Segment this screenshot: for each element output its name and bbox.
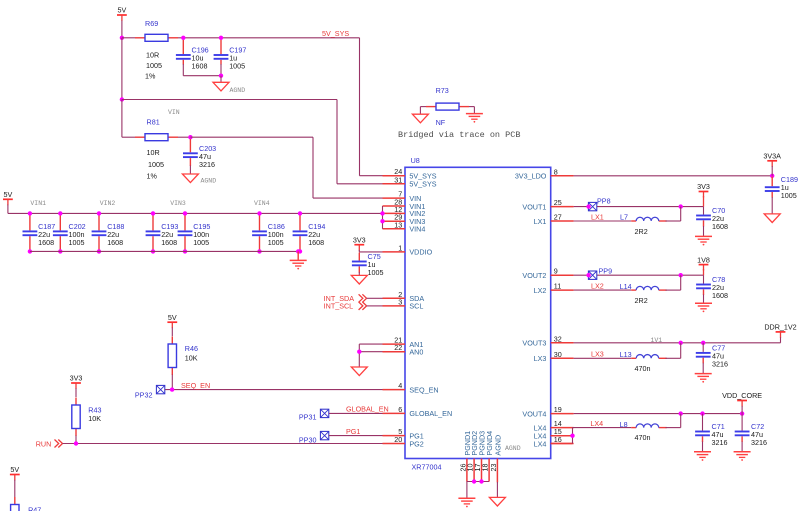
wire (359, 343, 382, 345)
junction (586, 204, 590, 208)
svg-text:25: 25 (554, 198, 562, 207)
wire (680, 207, 682, 221)
svg-text:1005: 1005 (146, 61, 162, 70)
ground PGND (C77) (695, 374, 712, 383)
svg-text:VOUT2: VOUT2 (522, 271, 546, 280)
svg-text:10K: 10K (185, 354, 198, 363)
junction (97, 211, 101, 215)
junction (97, 249, 101, 253)
svg-text:1%: 1% (145, 72, 156, 81)
wire (358, 250, 360, 252)
resistor R43 (72, 398, 102, 437)
svg-text:NF: NF (436, 118, 446, 127)
svg-text:VIN4: VIN4 (254, 200, 270, 207)
svg-text:5V_SYS: 5V_SYS (409, 180, 436, 189)
IC U8 XR77004 body (405, 156, 551, 472)
wire (574, 357, 632, 359)
svg-text:2R2: 2R2 (635, 227, 648, 236)
wire (8, 212, 383, 214)
junction (679, 411, 683, 415)
svg-text:11: 11 (554, 282, 561, 291)
wire (358, 272, 360, 275)
test point PP9 (588, 266, 612, 279)
wire (122, 37, 135, 39)
capacitor C189 (765, 175, 798, 200)
junction (479, 479, 483, 483)
junction (679, 273, 683, 277)
wire (574, 289, 632, 291)
svg-text:LX3: LX3 (534, 354, 547, 363)
svg-text:3V3: 3V3 (353, 235, 366, 244)
svg-text:R46: R46 (185, 344, 198, 353)
power symbol 3V3A (763, 152, 781, 167)
junction (183, 211, 187, 215)
wire (359, 351, 382, 353)
wire (121, 100, 123, 138)
wire (189, 166, 191, 175)
wire (121, 21, 123, 38)
wire (312, 137, 314, 198)
IC U8 bottom pin numbers (458, 464, 498, 472)
svg-text:GLOBAL_EN: GLOBAL_EN (346, 405, 389, 414)
capacitor C194 (293, 213, 326, 251)
svg-text:5V: 5V (118, 6, 127, 15)
svg-text:LX4: LX4 (590, 419, 603, 428)
power symbol 5V (10, 465, 20, 480)
IC U8 right pin names (515, 172, 547, 449)
junction (183, 249, 187, 253)
wire (771, 197, 773, 214)
svg-text:1: 1 (398, 243, 402, 252)
wire (329, 435, 383, 437)
svg-text:AGND: AGND (505, 445, 521, 452)
wire (666, 289, 681, 291)
svg-text:PG2: PG2 (409, 439, 423, 448)
svg-text:U8: U8 (411, 156, 420, 165)
wire (121, 38, 123, 100)
junction (151, 249, 155, 253)
junction (28, 249, 32, 253)
wire (680, 275, 682, 290)
wire (572, 428, 574, 444)
wire (574, 206, 704, 208)
inductor L14 (620, 282, 667, 305)
junction (586, 273, 590, 277)
wire (183, 75, 221, 77)
svg-text:13: 13 (394, 220, 402, 229)
svg-text:1608: 1608 (192, 62, 208, 71)
svg-text:SEQ_EN: SEQ_EN (181, 381, 210, 390)
wire (573, 427, 632, 429)
wire (220, 76, 222, 83)
wire (7, 205, 9, 214)
svg-text:AN0: AN0 (409, 348, 423, 357)
wire (75, 388, 77, 397)
ground AGND (AN0/AN1) (351, 367, 367, 376)
wire (382, 206, 384, 229)
IC U8 bottom pin names (463, 431, 503, 456)
inductor L8 (620, 420, 667, 442)
svg-text:1005: 1005 (781, 191, 797, 200)
svg-text:Bridged via trace on PCB: Bridged via trace on PCB (398, 130, 520, 140)
svg-text:1005: 1005 (229, 62, 245, 71)
junction (472, 479, 476, 483)
svg-text:1608: 1608 (107, 238, 123, 247)
ground PGND (C78) (695, 303, 712, 312)
wire (703, 269, 705, 275)
wire (771, 166, 773, 176)
wire (680, 343, 682, 359)
svg-text:3216: 3216 (751, 438, 767, 447)
wire (574, 175, 773, 177)
ground PGND (C72) (734, 452, 751, 461)
junction (120, 36, 124, 40)
svg-text:VDDIO: VDDIO (409, 248, 432, 257)
wire (63, 443, 383, 445)
svg-text:1005: 1005 (268, 238, 284, 247)
svg-text:L7: L7 (620, 213, 628, 222)
wire (741, 406, 743, 414)
ground AGND (C75) (351, 275, 367, 284)
junction (170, 387, 174, 391)
wire (420, 106, 426, 108)
wire (178, 37, 360, 39)
svg-text:1005: 1005 (368, 268, 384, 277)
svg-text:2R2: 2R2 (635, 296, 648, 305)
svg-text:RUN: RUN (36, 439, 52, 448)
wire (469, 106, 474, 108)
svg-text:VIN3: VIN3 (170, 200, 186, 207)
power symbol 3V3 (70, 374, 83, 389)
IC U8 left pin stubs (383, 176, 406, 444)
svg-text:INT_SCL: INT_SCL (324, 301, 354, 310)
IC U8 right pin numbers (554, 167, 562, 444)
wire (703, 295, 705, 304)
power symbol DDR_1V2 (764, 323, 796, 338)
svg-text:GLOBAL_EN: GLOBAL_EN (409, 409, 452, 418)
wire (336, 100, 338, 184)
wire (780, 337, 782, 343)
wire (313, 197, 383, 199)
wire (473, 107, 475, 114)
svg-text:3V3_LDO: 3V3_LDO (515, 172, 547, 181)
svg-text:VIN: VIN (168, 109, 180, 116)
off-page connector INT_SCL (324, 301, 367, 310)
IC U8 bottom pin stubs (467, 459, 498, 483)
capacitor C195 (178, 213, 211, 251)
power symbol 1V8 (697, 255, 710, 270)
svg-text:9: 9 (554, 267, 558, 276)
wire (574, 220, 632, 222)
capacitor C77 (696, 343, 728, 369)
svg-text:5V: 5V (10, 465, 19, 474)
wire (171, 328, 173, 337)
svg-text:LX1: LX1 (591, 212, 604, 221)
wire (358, 344, 360, 367)
junction (679, 341, 683, 345)
wire (165, 389, 383, 391)
capacitor C187 (23, 213, 56, 251)
power symbol VDD_CORE (722, 391, 762, 406)
wire (703, 226, 705, 236)
junction (58, 211, 62, 215)
svg-text:470n: 470n (635, 364, 651, 373)
wire (419, 107, 421, 115)
resistor R46 (168, 337, 198, 376)
svg-text:LX1: LX1 (534, 217, 547, 226)
svg-text:PP8: PP8 (597, 196, 611, 205)
svg-text:32: 32 (554, 334, 562, 343)
svg-text:VIN1: VIN1 (30, 200, 46, 207)
wire (741, 442, 743, 452)
wire (367, 297, 383, 299)
wire (14, 480, 16, 497)
capacitor C70 (696, 206, 728, 231)
ground PGND (R73 right) (466, 114, 483, 123)
svg-text:3216: 3216 (199, 160, 215, 169)
svg-text:3V3A: 3V3A (763, 152, 781, 161)
svg-text:1608: 1608 (38, 238, 54, 247)
test point PP8 (588, 196, 610, 210)
wire (367, 305, 383, 307)
svg-text:LX2: LX2 (591, 281, 604, 290)
svg-text:PP32: PP32 (135, 391, 153, 400)
capacitor C188 (92, 213, 125, 251)
svg-text:470n: 470n (635, 433, 651, 442)
svg-text:AGND: AGND (201, 178, 217, 185)
junction (380, 211, 384, 215)
junction (700, 411, 704, 415)
wire (467, 481, 489, 483)
junction (219, 74, 223, 78)
svg-text:R81: R81 (147, 118, 160, 127)
svg-text:6: 6 (398, 405, 402, 414)
wire (703, 196, 705, 207)
capacitor C72 (735, 414, 767, 447)
svg-text:1005: 1005 (148, 160, 164, 169)
ground AGND (C189) (764, 214, 780, 223)
wire (190, 136, 313, 138)
wire (466, 482, 468, 498)
capacitor C196 (176, 40, 209, 71)
junction (151, 211, 155, 215)
wire (666, 357, 681, 359)
svg-text:8: 8 (554, 167, 558, 176)
svg-text:R69: R69 (145, 19, 158, 28)
svg-text:10R: 10R (146, 51, 159, 60)
junction (120, 97, 124, 101)
junction (219, 36, 223, 40)
wire (337, 183, 383, 185)
svg-text:3V3: 3V3 (70, 374, 83, 383)
svg-text:AGND: AGND (230, 87, 246, 94)
svg-text:1608: 1608 (308, 238, 324, 247)
resistor R73 (426, 86, 469, 127)
ground AGND (C196/C197) (213, 82, 245, 94)
capacitor C75 (352, 252, 384, 277)
svg-text:1005: 1005 (69, 238, 85, 247)
svg-text:SEQ_EN: SEQ_EN (409, 385, 438, 394)
junction (181, 36, 185, 40)
wire (171, 375, 173, 390)
svg-text:10K: 10K (88, 414, 101, 423)
resistor R81 (135, 118, 178, 181)
junction (740, 411, 744, 415)
svg-text:27: 27 (554, 213, 562, 222)
svg-text:L8: L8 (620, 420, 628, 429)
IC U8 left pin numbers (394, 167, 402, 444)
inductor L13 (620, 350, 667, 373)
svg-text:LX2: LX2 (534, 286, 547, 295)
junction (357, 350, 361, 354)
svg-text:VOUT1: VOUT1 (522, 202, 546, 211)
wire (75, 436, 77, 444)
wire (680, 414, 682, 428)
junction (298, 211, 302, 215)
resistor R47 (11, 497, 42, 516)
power symbol 5V (3, 190, 13, 205)
wire (329, 412, 383, 414)
junction (28, 211, 32, 215)
wire (702, 363, 704, 374)
test point PP30 (299, 431, 329, 444)
svg-text:VDD_CORE: VDD_CORE (722, 391, 762, 400)
wire (122, 136, 135, 138)
svg-text:19: 19 (554, 405, 562, 414)
ground AGND (R73 left) (412, 114, 428, 123)
off-page connector RUN (36, 439, 63, 448)
svg-text:L13: L13 (620, 350, 632, 359)
IC U8 right pin stubs (551, 176, 574, 444)
power symbol 5V (117, 6, 127, 21)
wire (666, 427, 681, 429)
wire (359, 38, 361, 176)
svg-text:VIN4: VIN4 (409, 225, 425, 234)
test point PP32 (135, 385, 165, 399)
svg-text:R73: R73 (436, 86, 449, 95)
svg-text:3216: 3216 (712, 359, 728, 368)
svg-text:5V_SYS: 5V_SYS (322, 29, 349, 38)
svg-text:PG1: PG1 (346, 427, 360, 436)
junction (701, 341, 705, 345)
svg-text:3216: 3216 (712, 438, 728, 447)
capacitor C202 (53, 213, 86, 251)
wire (360, 175, 383, 177)
wire (359, 251, 382, 253)
capacitor C193 (146, 213, 179, 251)
svg-text:R47: R47 (28, 506, 41, 512)
svg-text:VIN2: VIN2 (100, 200, 116, 207)
power symbol 3V3 (353, 235, 366, 250)
capacitor C203 (183, 139, 216, 169)
wire (496, 482, 498, 497)
svg-text:5V: 5V (168, 313, 177, 322)
svg-text:3: 3 (398, 297, 402, 306)
off-page connector INT_SDA (324, 294, 367, 303)
svg-text:23: 23 (489, 464, 498, 472)
junction (74, 441, 78, 445)
capacitor C78 (696, 275, 728, 300)
svg-text:LX3: LX3 (591, 350, 604, 359)
svg-text:VOUT4: VOUT4 (522, 409, 546, 418)
resistor R69 (135, 19, 178, 81)
svg-text:R43: R43 (88, 405, 101, 414)
svg-text:1608: 1608 (161, 238, 177, 247)
svg-text:22: 22 (394, 343, 402, 352)
IC U8 left pin names (409, 172, 452, 449)
junction (770, 174, 774, 178)
wire (30, 250, 298, 252)
svg-text:5V: 5V (4, 190, 13, 199)
wire (220, 64, 222, 76)
ground AGND (chip) (489, 497, 505, 506)
svg-text:1%: 1% (147, 172, 158, 181)
wire (666, 220, 681, 222)
ground PGND (chip) (458, 498, 475, 507)
wire (574, 342, 781, 344)
test point PP31 (299, 409, 329, 421)
ground PGND (C71) (694, 452, 711, 461)
junction (380, 219, 384, 223)
junction (296, 249, 300, 253)
power symbol 3V3 (697, 182, 710, 197)
svg-text:PP30: PP30 (299, 435, 317, 444)
svg-text:XR77004: XR77004 (412, 463, 442, 472)
wire (574, 413, 743, 415)
wire (702, 442, 704, 452)
ground AGND (C203) (182, 174, 216, 185)
svg-text:1V1: 1V1 (651, 337, 663, 344)
svg-text:4: 4 (398, 381, 402, 390)
inductor L7 (620, 213, 667, 236)
capacitor C71 (695, 414, 727, 447)
wire (182, 64, 184, 76)
junction (257, 211, 261, 215)
svg-text:31: 31 (394, 175, 402, 184)
svg-text:DDR_1V2: DDR_1V2 (764, 323, 796, 332)
ground PGND (C70) (695, 236, 712, 245)
svg-text:VOUT3: VOUT3 (522, 339, 546, 348)
svg-text:3V3: 3V3 (697, 182, 710, 191)
capacitor C186 (252, 213, 285, 251)
svg-text:1V8: 1V8 (697, 255, 710, 264)
svg-text:20: 20 (394, 435, 402, 444)
junction (188, 135, 192, 139)
wire (574, 274, 704, 276)
junction (679, 204, 683, 208)
capacitor C197 (214, 40, 247, 71)
junction (58, 249, 62, 253)
svg-text:10R: 10R (147, 148, 160, 157)
junction (298, 249, 302, 253)
svg-text:1005: 1005 (193, 238, 209, 247)
power symbol 5V (167, 313, 177, 328)
wire (178, 136, 190, 138)
svg-text:L14: L14 (620, 282, 632, 291)
svg-text:AGND: AGND (493, 435, 502, 456)
svg-text:SCL: SCL (409, 302, 423, 311)
svg-text:1608: 1608 (712, 291, 728, 300)
wire (122, 99, 337, 101)
svg-text:PP31: PP31 (299, 413, 317, 422)
svg-text:PP9: PP9 (599, 266, 613, 275)
svg-text:LX4: LX4 (534, 439, 547, 448)
svg-text:30: 30 (554, 350, 562, 359)
svg-text:1608: 1608 (712, 222, 728, 231)
ground PGND (input caps) (290, 260, 307, 269)
junction (257, 249, 261, 253)
junction (570, 434, 574, 438)
